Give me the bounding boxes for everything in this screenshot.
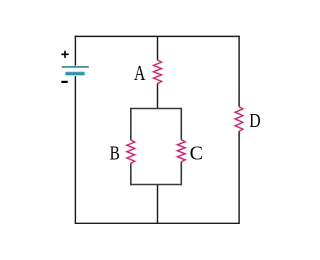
svg-text:D: D	[249, 110, 260, 132]
svg-text:B: B	[110, 142, 120, 164]
svg-text:C: C	[190, 142, 203, 164]
svg-text:A: A	[134, 61, 146, 85]
